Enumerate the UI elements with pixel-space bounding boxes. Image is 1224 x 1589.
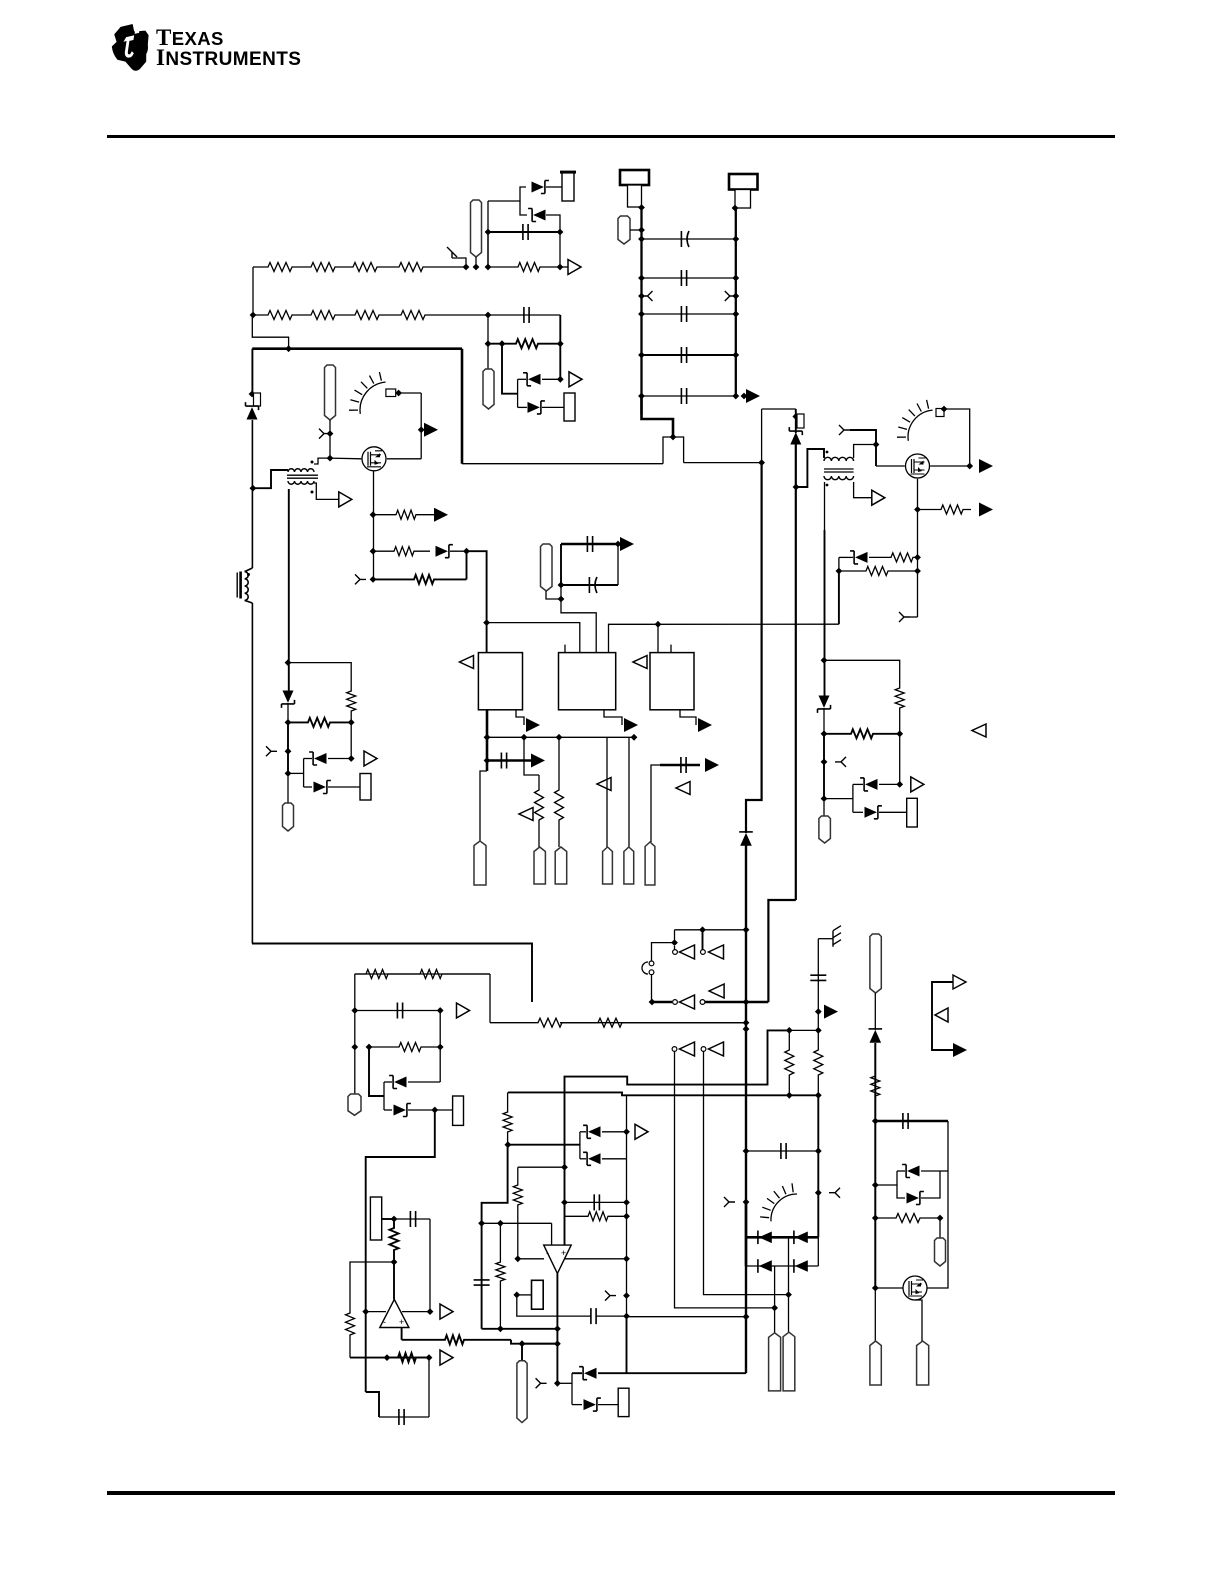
wire upper zener row [518,378,526,380]
wire bridge mid stub [788,1237,790,1294]
wire Q1 source rail [373,472,375,580]
wire zstem 580 [579,1132,581,1159]
node under bus b [631,734,638,741]
node P2 join [638,227,645,234]
wire upper zrow bottom [572,1372,582,1374]
node r37 out [937,1215,944,1222]
resistor R21 [824,729,900,738]
node src a [370,511,377,518]
wire out row [482,1328,558,1330]
wire pill feed 4 [874,1288,876,1341]
wire P1 lead [475,257,477,267]
wire clusterR top link [824,660,900,681]
wire zpair feed L [288,772,304,774]
wire Q2 source rail [917,479,919,617]
header connector J2 outline [620,170,649,185]
capacitor C15 [591,1308,596,1324]
resistor R2 in top chain [300,263,345,272]
open flag U3 [633,656,647,669]
wire J8 to node [382,1218,394,1220]
resistor R7 in second chain [345,311,392,320]
wire c down [487,232,489,267]
connector pin P3 [483,369,494,409]
transformer T1 polarity dots [311,461,314,464]
resistor R12 [373,547,430,556]
wire bridge row1 [746,1236,818,1239]
wire pill P6 lead [546,591,561,599]
fan spark gap bottom [760,1183,797,1221]
wire bridge cap row [746,1150,818,1152]
wire chain1 left drop [252,267,254,315]
wire bold bus right edge [461,349,464,464]
node 746 f [743,1313,750,1320]
wire bus drop 524 [524,737,539,775]
node bus drop 559 [556,734,563,741]
node fan out [941,406,948,413]
node plus stem b [561,1199,568,1206]
resistor R31 [503,1092,512,1144]
arrow VBUS out [746,389,760,403]
capacitor C2 polarized [681,231,689,247]
node lb e [437,1044,444,1051]
wire fb left [350,1262,394,1269]
capacitor C17 [810,975,826,980]
wire fork to chain1 [452,258,466,267]
node colA a [505,1141,512,1148]
fan box left [386,389,396,397]
node J2 out [638,204,645,211]
net stub clusterR [835,757,846,767]
wire 746 foot [745,1317,747,1374]
connector pin P16 [769,1333,781,1391]
arrow U1 out [526,718,540,732]
resistor R25 second [560,1018,746,1027]
wire res row op1 [350,1357,429,1359]
arrow src out [434,508,448,522]
resistor R35 [814,1030,823,1095]
wire D9 to box [328,786,360,788]
capacitor C7 on chain2 [524,307,529,323]
resistor R34 [785,1030,794,1095]
wire zrow lower [580,1158,586,1160]
wire left cap rail [640,208,642,415]
node plus stem a [561,1164,568,1171]
node Q1 drain [418,426,425,433]
wire 940 link [940,1170,948,1172]
node chain1 b [473,264,480,271]
open flag mid [935,1008,948,1022]
node U1 feed [483,619,490,626]
net stub 626 [605,1291,616,1301]
node bus746 T4 crossing [743,999,750,1006]
node 746 a [743,926,750,933]
connector pin P2 [618,216,630,244]
svg-text:-: - [546,1248,549,1258]
wire D5 to box [542,406,564,408]
wire row 1144 [508,1144,580,1146]
node bus r1 [786,1092,793,1099]
wire cap row C1 [488,231,560,233]
wire out down [556,1344,558,1384]
capacitor C12 [397,1003,402,1019]
wire D2 to box [546,186,562,188]
node pill join [519,1340,526,1347]
wire z-block to bus [627,1372,747,1374]
arrow flag bottom [953,1043,967,1057]
node 288 top [285,659,292,666]
open flag u3row [676,782,690,795]
resistor R18 [869,553,918,562]
wire 288 mid [287,722,289,773]
zener diode D20a [588,1126,600,1137]
wire L1 bottom jog [245,600,253,603]
wire U2-U3-right net [609,624,839,652]
wire 560 link [559,344,561,380]
wire D13 out [879,783,900,785]
wire bridge mid stub2 [774,1266,776,1308]
open arrow op1 out [440,1304,453,1319]
wire lower zrow L [304,786,312,788]
open flag T4 [709,984,724,998]
wire minus stem [551,1223,553,1245]
connector pin P4 [325,365,336,420]
arrow U3 cap out [705,758,719,772]
wire C1 right down [559,232,561,267]
node op1 out [427,1308,434,1315]
node bus r2 [815,1092,822,1099]
wire 351 link [350,722,352,758]
node rail626 b [623,1199,630,1206]
open arrow lb [457,1003,470,1018]
wire minus row [482,1222,552,1224]
net stub out [536,1378,547,1388]
op-amp U5 triangle [544,1245,572,1273]
node lb f [431,1107,438,1114]
wire rail 626 [626,1095,628,1316]
wire left rail to edge inductor [251,420,253,568]
zener diode D14 [865,807,877,818]
wire lower zener row [518,406,527,408]
arrow drain out [424,423,438,437]
node r row left [485,340,492,347]
capacitor C8 [587,536,592,552]
node bridge R fork [815,1189,822,1196]
wire C6 row [642,395,736,397]
wire op1 minus stem [393,1262,395,1299]
wire upper zrow lb [384,1081,392,1083]
wire bridge left rail [745,1202,748,1266]
wire loop left drop [354,974,356,1011]
net stub bridge R [829,1188,840,1198]
wire D17 to box [408,1109,453,1111]
open arrow z1 [635,1124,648,1139]
terminal box J6 [907,798,918,827]
wire notch left [663,437,673,464]
IC U3 top pin stub [670,645,672,653]
wire zpair stem lb [383,1082,385,1110]
pin circle link b [649,970,654,975]
node colB a [514,1255,521,1262]
resistor R6 in second chain [300,311,345,320]
wire D25 out [921,1170,940,1172]
fan spark gap right [897,400,933,441]
node thick bus [649,999,656,1006]
inductor L1 dot [247,573,250,576]
wire 824 z [823,708,825,734]
wire T3 sec out [854,482,872,498]
arrow u2a [620,537,634,551]
wire U1 cap row [487,759,537,762]
wire to T1 pin [674,930,676,940]
MOSFET Q3 [903,1276,927,1300]
wire C4 row [642,313,736,315]
pin circle B1 [672,1047,677,1052]
open arrow out1 [568,260,581,275]
wire U3 arrow pin [680,710,696,725]
connector pin P1 [471,200,482,257]
wire Y1 link [517,1294,532,1296]
wire net riser 839 [838,571,840,624]
node clusterL fork [285,748,292,755]
wire zrow dn 875 [897,1185,905,1198]
connector pin P21 [870,934,881,993]
node src b [370,548,377,555]
node 746 e [743,1199,750,1206]
node rail626 c [623,1213,630,1220]
wire C5 row [642,354,736,356]
wire bus drop 629 [628,737,630,847]
wire D20b out [602,1158,627,1160]
wire Q3 source [915,1300,922,1341]
node U2-U3 net [655,621,662,628]
transformer T1 primary coil [288,469,314,472]
pin circle T4 [700,1000,705,1005]
wire left rail upper [251,349,253,394]
node chain2 right [485,312,492,319]
wire fb cap loop [366,1392,379,1417]
transformer T3 dots [826,451,829,454]
net stub clusterL [266,746,277,756]
Texas Instruments logo glyph (state map with ti) [112,24,149,71]
resistor R12b [373,575,467,584]
resistor R27 [390,1219,399,1262]
zener diode D19 [584,1399,596,1410]
arrow gnd out [824,1005,838,1019]
connector pin P19 [870,1341,881,1385]
open flag U1 [460,656,474,669]
zener diode D3 [533,210,545,221]
resistor R31b [496,1223,505,1329]
node fan left out [395,390,402,397]
wire chain2 to corner [488,314,560,316]
resistor R17 [918,505,972,514]
node clusterL c [285,770,292,777]
net stub srcR [899,612,910,622]
wire fan left link [399,392,422,394]
open arrow clusterR [911,777,924,792]
header connector J3 shroud [735,190,751,209]
terminal box J5 [360,774,371,801]
wire c-link [652,943,675,961]
wire rail R mid [795,444,797,900]
node y9298 a [699,926,706,933]
node chain1 c [485,264,492,271]
wire cap row out [596,1315,627,1317]
node src c [370,576,377,583]
inductor L1 winding [245,572,249,601]
capacitor C19 [903,1113,908,1129]
wire zpair feed 875 [875,1171,897,1185]
net stub fork at chain1 [447,247,457,258]
wire Q1 drain [387,458,421,460]
wire rail R upper [795,409,797,433]
capacitor C5 [681,347,686,363]
wire pill feed 3 [939,1218,941,1238]
node D4 out [557,376,564,383]
wire cap drop [429,1219,431,1312]
zener diode D9 [314,782,326,793]
capacitor C6 [681,388,686,404]
wire colB bottom [517,1295,591,1316]
arrow U2 out [624,718,638,732]
node lb a [351,1007,358,1014]
wire box bottom link [462,463,663,465]
wire D14 to box [879,811,907,813]
node r35 top [815,1027,822,1034]
net stub gate-left [319,429,330,439]
varistor box RV2 [797,414,804,428]
capacitor C20 [474,1280,490,1285]
wire zpair stem R [852,784,854,812]
node cap C4 left [638,311,645,318]
node r row mid [499,340,506,347]
wire rail626 bottom corner [626,1316,628,1373]
wire zrow up 875 [897,1170,905,1172]
resistor R13 [347,684,356,722]
wire lower zrow R [853,811,863,813]
zener diode D18 [584,1368,596,1379]
open arrow op1 out2 [440,1350,453,1365]
node u2b [558,582,565,589]
wire u2b right [617,544,619,585]
open arrow out2 [569,372,582,387]
wire D20a out [602,1131,627,1133]
node rail626 f [623,1313,630,1320]
node cap C3 left [638,275,645,282]
wire bridge link [817,1237,819,1266]
node u2a [615,541,622,548]
op-amp U4 triangle [380,1299,409,1327]
wire T1 prim right up [314,458,330,464]
wire zener pair feed [502,344,518,394]
wire cap row 875 [875,1120,948,1123]
node clusterL b [348,719,355,726]
node col875 d [872,1285,879,1292]
node out b [554,1340,561,1347]
node bus jog [670,434,677,441]
node clusterR c [821,795,828,802]
wire C2 row [642,238,736,240]
arrow Q2 drain out [979,459,993,473]
wire to pill P7 [480,771,487,841]
wire D16 out [408,1081,440,1083]
node colA b [478,1220,485,1227]
wire upper zrow L [304,758,312,760]
wire to zpair bottom [557,1382,572,1384]
connector pin P9 [555,847,567,884]
node col875 a [872,1118,879,1125]
open arrow T1 sec [339,492,352,507]
wire T3 out to mosfet [854,445,876,459]
connector arc [642,962,648,974]
IC U1 [478,653,522,710]
diode D24 [795,1260,808,1272]
resistor R24 long wire [490,1018,746,1027]
net stub src [355,574,366,584]
wire plus stem U5 [565,1030,790,1245]
wire loop right drop [489,974,491,1023]
wire B1 drop [675,1052,775,1308]
wire rail jog to bold bus [252,316,288,349]
capacitor C14 [399,1409,404,1425]
diode D15 on bus [740,833,752,846]
wire colA jog [482,1145,508,1329]
wire col875 [874,1043,876,1288]
wire link down [651,975,653,1003]
connector pin P14 [348,1094,361,1115]
wire cap to node [428,1358,430,1417]
node gnd arrow [815,1008,822,1015]
connector pin P11 [624,847,634,884]
wire U1 bottom left pin [486,710,489,771]
wire T3 bot-left down [824,482,826,530]
zener diode D4 [528,374,540,385]
net stub left rail [642,291,653,301]
node rail R T3 [793,484,800,491]
zener diode D26 [907,1193,919,1204]
transformer T3 primary coil [824,457,854,461]
connector pin P15 [517,1361,527,1423]
wire Q2 drain [930,465,970,467]
zener diode D13 [865,779,877,790]
resistor R28 [346,1269,355,1358]
node cap C6 right [732,393,739,400]
wire thick drop [366,1110,435,1392]
wire under-IC bus [487,736,634,738]
top horizontal rule [107,135,1115,138]
wire gnd stem [817,939,819,1031]
wire fork R to gate [850,430,876,466]
wire node c up [487,201,489,267]
wire P2 to rail [630,229,642,231]
wire 8997 link [899,734,901,785]
wire colB top row [518,1166,565,1168]
node fork L [327,430,334,437]
arrow srcR out [979,503,993,517]
zener diode D25 [907,1166,919,1177]
wire y9298 row [675,929,747,931]
node fork R [732,293,739,300]
node op1 e [426,1354,433,1361]
node left rail at TVS [249,391,256,398]
wire left rail to thick jog [642,396,674,437]
pin circle T1 [673,950,678,955]
node op1 d [384,1354,391,1361]
wire bridge row2 [746,1265,818,1267]
wire bus y1092-1095 [508,1092,818,1095]
wire flag group [932,982,953,1050]
zener diode D8 [314,753,326,764]
